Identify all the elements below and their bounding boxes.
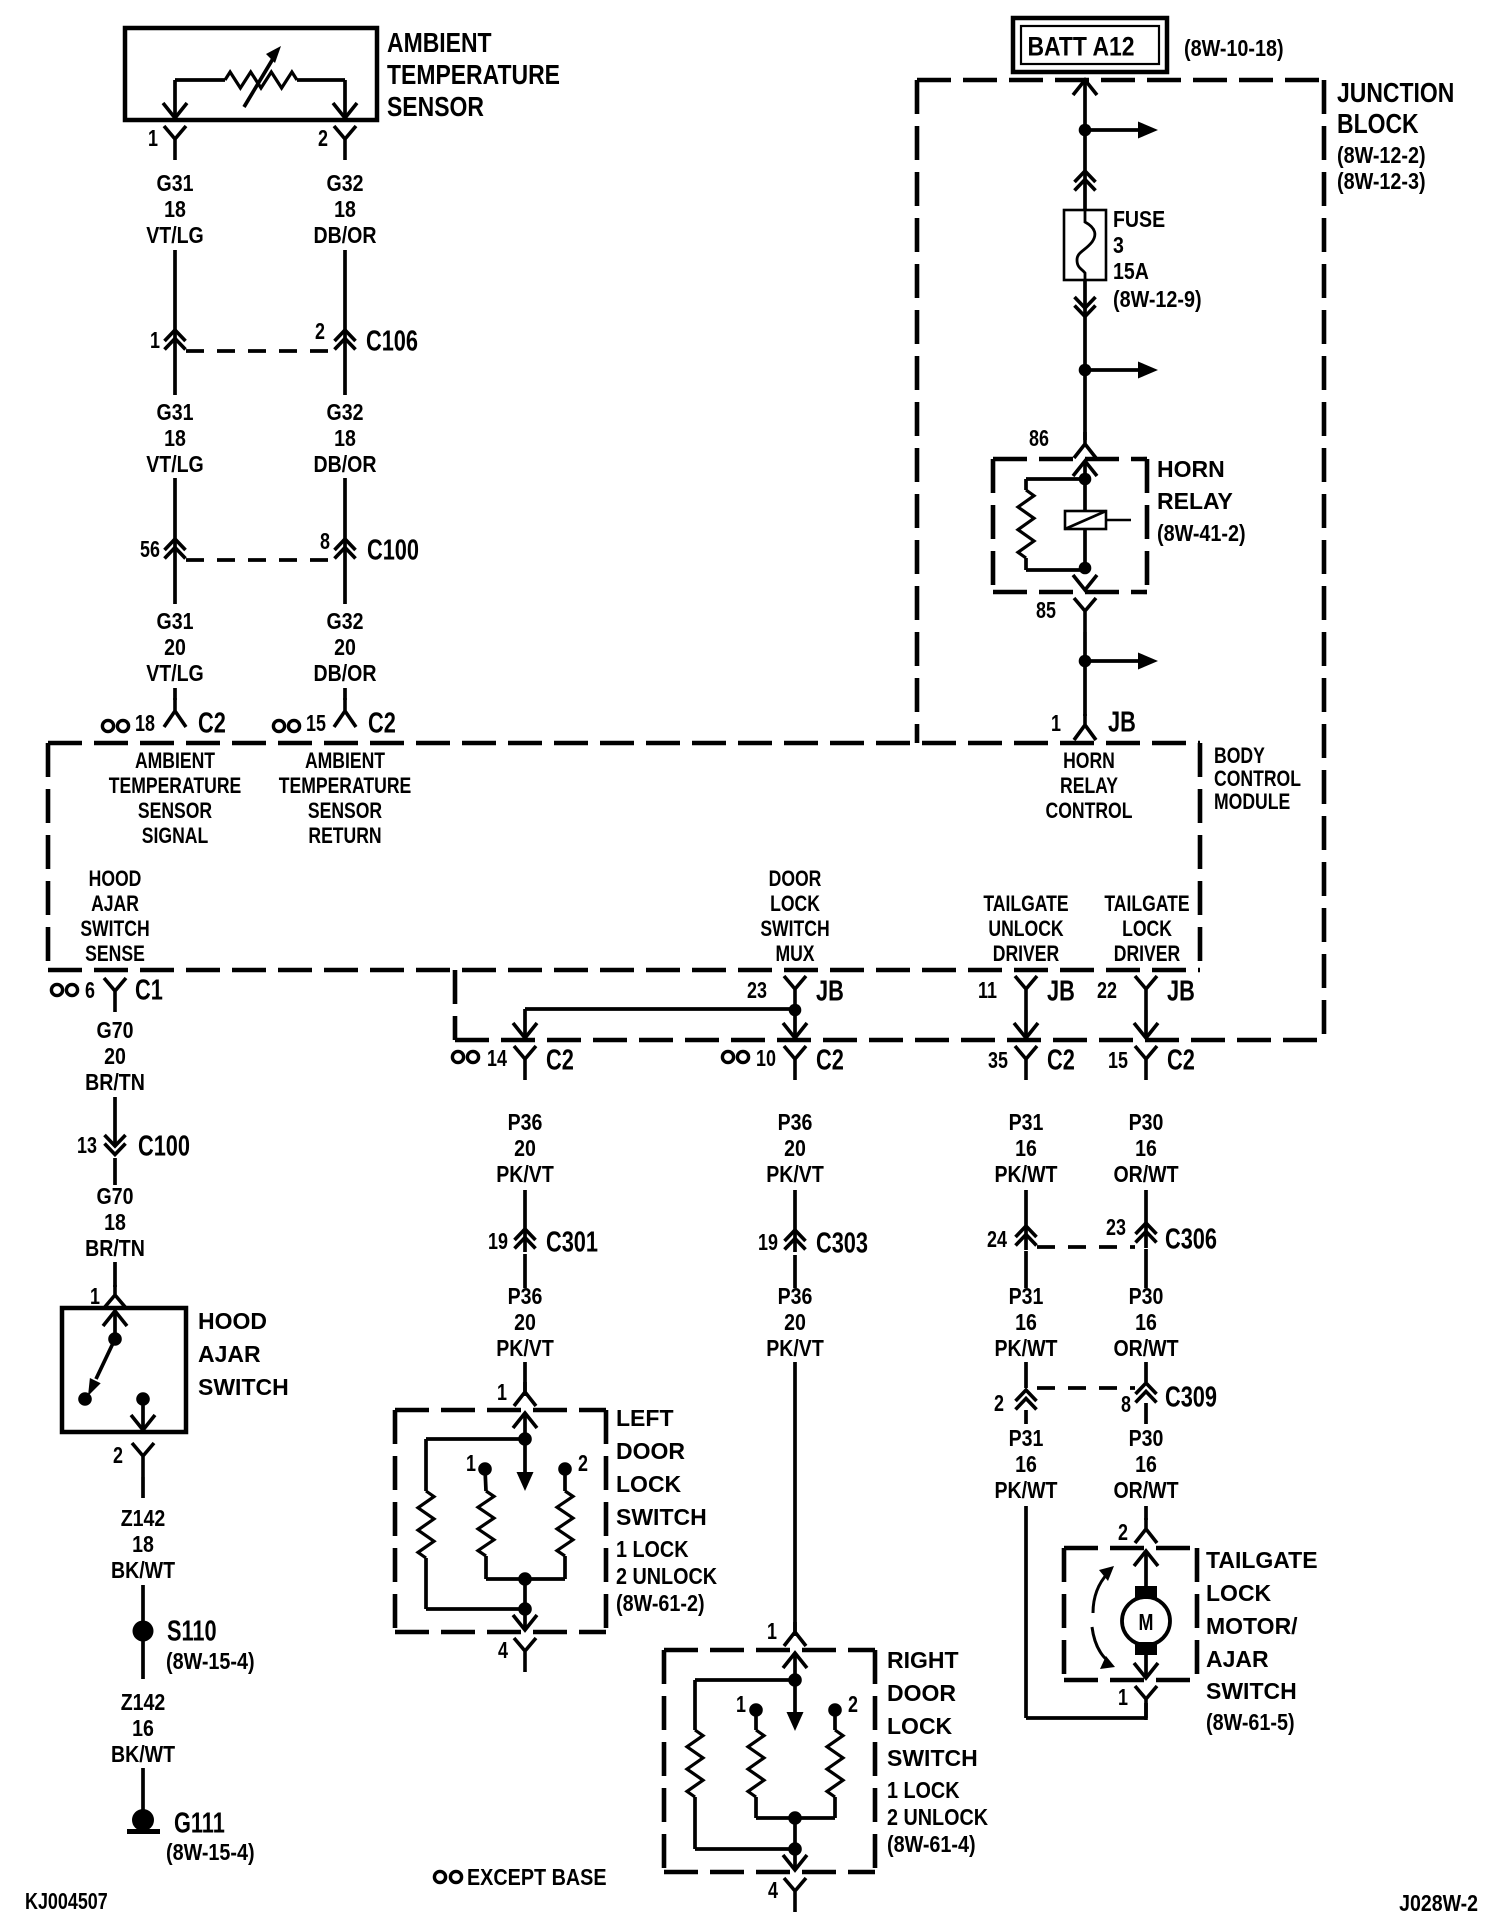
svg-text:G111: G111 bbox=[174, 1807, 225, 1839]
svg-text:MODULE: MODULE bbox=[1214, 790, 1290, 814]
svg-text:18: 18 bbox=[164, 197, 186, 223]
relay suppression resistor bbox=[1018, 479, 1085, 570]
sensor pin 2 arrow into box bottom bbox=[333, 103, 357, 118]
svg-text:(8W-12-2): (8W-12-2) bbox=[1337, 143, 1426, 169]
svg-text:SWITCH: SWITCH bbox=[616, 1504, 707, 1530]
connector C100 dashed link bbox=[186, 558, 334, 562]
motor M1 bbox=[1122, 1597, 1170, 1645]
hood switch movable arm bbox=[88, 1339, 115, 1396]
connector designator JB (horn relay control) bbox=[1108, 706, 1136, 738]
svg-text:VT/LG: VT/LG bbox=[146, 452, 204, 478]
svg-text:(8W-15-4): (8W-15-4) bbox=[166, 1649, 255, 1675]
sensor pin 1 arrow into box bottom bbox=[163, 103, 187, 118]
svg-text:(8W-41-2): (8W-41-2) bbox=[1157, 521, 1246, 547]
connector C303 pin 19 label bbox=[758, 1230, 778, 1256]
right door switch pin 4 connector bbox=[784, 1878, 806, 1912]
motor brush bottom bbox=[1135, 1642, 1157, 1655]
wire label P36 20 PK/VT (left lower) bbox=[496, 1284, 554, 1362]
wire label P31 16 PK/WT (upper) bbox=[995, 1110, 1058, 1188]
svg-text:SWITCH: SWITCH bbox=[198, 1374, 289, 1400]
connector C100 pin 13 label bbox=[77, 1133, 97, 1159]
JB C2 pin 35 label bbox=[988, 1048, 1008, 1074]
hood ajar switch box bbox=[62, 1308, 186, 1432]
svg-text:2: 2 bbox=[318, 126, 328, 152]
svg-text:13: 13 bbox=[77, 1133, 97, 1159]
connector designator C2 (pin 14) bbox=[546, 1044, 574, 1076]
arrow out of motor box bbox=[1134, 1663, 1158, 1678]
except-base marker (10 C2) bbox=[722, 1051, 748, 1062]
right door switch common node bbox=[788, 1673, 802, 1687]
svg-text:3: 3 bbox=[1113, 233, 1124, 259]
wire label G31 20 VT/LG (lower) bbox=[146, 609, 204, 687]
svg-text:HOOD: HOOD bbox=[198, 1308, 267, 1334]
svg-text:18: 18 bbox=[132, 1532, 154, 1558]
motor brush top bbox=[1135, 1586, 1157, 1599]
connector designator C301 bbox=[546, 1226, 598, 1258]
svg-text:TEMPERATURE: TEMPERATURE bbox=[109, 774, 242, 798]
right door switch contact 1 bbox=[749, 1703, 763, 1717]
svg-text:16: 16 bbox=[1015, 1452, 1037, 1478]
svg-text:18: 18 bbox=[334, 426, 356, 452]
wire P31 to motor pin 1 bbox=[1026, 1410, 1146, 1718]
connector C309 dashed link bbox=[1037, 1386, 1135, 1390]
svg-text:C306: C306 bbox=[1165, 1223, 1217, 1255]
except-base marker (6 C1) bbox=[51, 984, 77, 995]
svg-text:1: 1 bbox=[1051, 711, 1061, 737]
right door switch contact 2 bbox=[828, 1703, 842, 1717]
svg-text:20: 20 bbox=[784, 1136, 806, 1162]
svg-text:(8W-61-5): (8W-61-5) bbox=[1206, 1710, 1295, 1736]
svg-text:P31: P31 bbox=[1009, 1110, 1044, 1136]
svg-text:4: 4 bbox=[768, 1878, 778, 1904]
svg-text:PK/VT: PK/VT bbox=[496, 1336, 554, 1362]
BCM C2 pin 15 label bbox=[306, 711, 326, 737]
JB C2 pin 14 label bbox=[487, 1046, 507, 1072]
svg-text:16: 16 bbox=[1135, 1136, 1157, 1162]
connector C100 pin 56 label bbox=[140, 537, 160, 563]
svg-text:PK/WT: PK/WT bbox=[995, 1478, 1058, 1504]
connector designator C100 (pin 13) bbox=[138, 1130, 190, 1162]
connector designator JB (pin 22) bbox=[1167, 975, 1195, 1007]
hood switch pin 1 label bbox=[90, 1284, 100, 1310]
svg-text:PK/WT: PK/WT bbox=[995, 1162, 1058, 1188]
wire G31 to BCM C2 bbox=[173, 566, 177, 700]
svg-text:G31: G31 bbox=[157, 400, 194, 426]
svg-text:20: 20 bbox=[784, 1310, 806, 1336]
left door switch contact 2 label bbox=[578, 1451, 588, 1477]
svg-text:HORN: HORN bbox=[1157, 456, 1225, 482]
svg-text:SENSOR: SENSOR bbox=[138, 799, 212, 823]
label S110 bbox=[167, 1615, 217, 1647]
wire relay to BCM bbox=[1083, 632, 1087, 716]
svg-text:G70: G70 bbox=[97, 1184, 134, 1210]
wire label G70 20 BR/TN bbox=[85, 1018, 145, 1096]
wire P36 to right door lock switch bbox=[793, 1255, 797, 1636]
connector C106 pin 2 chevrons bbox=[335, 330, 356, 350]
svg-text:AMBIENT: AMBIENT bbox=[305, 749, 385, 773]
connector C106 pin 2 label bbox=[315, 319, 325, 345]
svg-text:SENSOR: SENSOR bbox=[308, 799, 382, 823]
svg-text:C2: C2 bbox=[368, 707, 396, 739]
svg-text:4: 4 bbox=[498, 1638, 508, 1664]
reference (8W-15-4) S110 bbox=[166, 1649, 255, 1675]
except-base marker (18 C2) bbox=[102, 720, 128, 731]
mux junction node bbox=[789, 1004, 802, 1017]
svg-text:PK/VT: PK/VT bbox=[766, 1336, 824, 1362]
svg-text:C2: C2 bbox=[1047, 1044, 1075, 1076]
svg-text:LOCK: LOCK bbox=[616, 1471, 682, 1497]
svg-text:1 LOCK: 1 LOCK bbox=[616, 1537, 689, 1563]
wire G70 to hood ajar switch bbox=[113, 1158, 117, 1287]
svg-text:OR/WT: OR/WT bbox=[1113, 1478, 1178, 1504]
svg-text:MOTOR/: MOTOR/ bbox=[1206, 1613, 1298, 1639]
svg-text:1: 1 bbox=[466, 1451, 476, 1477]
right door switch contact 2 label bbox=[848, 1692, 858, 1718]
wire mux down bbox=[793, 1010, 797, 1036]
node label HORN RELAY CONTROL bbox=[1046, 749, 1133, 823]
left door switch contact 1 label bbox=[466, 1451, 476, 1477]
svg-text:11: 11 bbox=[978, 978, 997, 1004]
BCM C1 pin 6 label bbox=[85, 978, 95, 1004]
svg-text:86: 86 bbox=[1029, 426, 1049, 452]
svg-text:16: 16 bbox=[1135, 1310, 1157, 1336]
relay pin 85 connector bbox=[1074, 598, 1096, 632]
svg-text:AJAR: AJAR bbox=[198, 1341, 261, 1367]
svg-text:JB: JB bbox=[1167, 975, 1195, 1007]
except-base marker (15 C2) bbox=[273, 720, 299, 731]
svg-text:SWITCH: SWITCH bbox=[887, 1745, 978, 1771]
right door switch range resistor bbox=[687, 1680, 795, 1849]
svg-text:TAILGATE: TAILGATE bbox=[983, 892, 1068, 916]
left door switch lower node bbox=[518, 1602, 532, 1628]
svg-text:RIGHT: RIGHT bbox=[887, 1647, 959, 1673]
arrow out of left door switch bbox=[513, 1615, 537, 1630]
hood switch contact 1 bbox=[78, 1392, 92, 1406]
left door switch pin 4 label bbox=[498, 1638, 508, 1664]
relay coil symbol bbox=[1065, 511, 1131, 529]
right door switch wiper arrow bbox=[787, 1680, 804, 1731]
svg-text:SIGNAL: SIGNAL bbox=[142, 824, 208, 848]
right door switch lower node bbox=[788, 1842, 802, 1868]
connector C303 pin 19 chevrons bbox=[785, 1230, 806, 1250]
svg-text:PK/WT: PK/WT bbox=[995, 1336, 1058, 1362]
svg-text:VT/LG: VT/LG bbox=[146, 661, 204, 687]
connector C100 pin 8 chevrons bbox=[335, 539, 356, 559]
svg-text:2 UNLOCK: 2 UNLOCK bbox=[616, 1564, 718, 1590]
wire label G31 18 VT/LG (middle) bbox=[146, 400, 204, 478]
body control module dashed box bbox=[48, 743, 1200, 970]
svg-text:16: 16 bbox=[1135, 1452, 1157, 1478]
svg-text:TEMPERATURE: TEMPERATURE bbox=[279, 774, 412, 798]
label HORN RELAY (8W-41-2) bbox=[1157, 456, 1246, 546]
BCM pin 1 JB connector bbox=[1074, 714, 1096, 740]
svg-text:20: 20 bbox=[164, 635, 186, 661]
svg-text:G32: G32 bbox=[327, 609, 364, 635]
svg-text:G31: G31 bbox=[157, 609, 194, 635]
svg-text:14: 14 bbox=[487, 1046, 507, 1072]
svg-text:SWITCH: SWITCH bbox=[760, 917, 829, 941]
wire P36 to C303 bbox=[793, 1190, 797, 1252]
motor pin 2 connector bbox=[1135, 1518, 1157, 1543]
wire Z142 to ground bbox=[141, 1641, 145, 1810]
JB C2 pin 10 label bbox=[756, 1046, 776, 1072]
connector C306 pin 24 chevrons bbox=[1016, 1226, 1037, 1246]
svg-text:DRIVER: DRIVER bbox=[1114, 942, 1180, 966]
sheet code J028W-2 bbox=[1399, 1891, 1478, 1917]
label FUSE 3 15A (8W-12-9) bbox=[1113, 207, 1202, 313]
thermistor adjustment arrow bbox=[244, 46, 281, 107]
left door switch common node bbox=[518, 1432, 532, 1446]
svg-text:JB: JB bbox=[816, 975, 844, 1007]
relay coil wire bbox=[1083, 461, 1087, 568]
left door lock switch dashed box bbox=[395, 1410, 606, 1632]
relay node top bbox=[1079, 473, 1092, 486]
svg-text:1: 1 bbox=[150, 328, 160, 354]
wire label G31 18 VT/LG (upper) bbox=[146, 171, 204, 249]
svg-text:6: 6 bbox=[85, 978, 95, 1004]
svg-text:DB/OR: DB/OR bbox=[314, 661, 377, 687]
svg-text:C2: C2 bbox=[1167, 1044, 1195, 1076]
svg-text:G32: G32 bbox=[327, 400, 364, 426]
svg-text:18: 18 bbox=[104, 1210, 126, 1236]
svg-text:C2: C2 bbox=[198, 707, 226, 739]
svg-text:DOOR: DOOR bbox=[616, 1438, 685, 1464]
svg-text:SENSE: SENSE bbox=[85, 942, 145, 966]
svg-text:2 UNLOCK: 2 UNLOCK bbox=[887, 1805, 989, 1831]
svg-text:C100: C100 bbox=[367, 534, 419, 566]
except-base marker (14 C2) bbox=[452, 1051, 478, 1062]
connector C301 pin 19 label bbox=[488, 1229, 508, 1255]
arrow into right door switch bbox=[783, 1653, 807, 1680]
connector designator C100 bbox=[367, 534, 419, 566]
relay pin 86 connector bbox=[1074, 432, 1096, 458]
svg-text:19: 19 bbox=[488, 1229, 508, 1255]
wire P30 to C306 bbox=[1144, 1190, 1148, 1248]
label RIGHT DOOR LOCK SWITCH bbox=[887, 1647, 989, 1857]
svg-text:LOCK: LOCK bbox=[1122, 917, 1172, 941]
wire label G32 18 DB/OR (upper) bbox=[314, 171, 377, 249]
connector C306 pin 23 label bbox=[1106, 1215, 1126, 1241]
tailgate lock motor dashed box bbox=[1064, 1548, 1197, 1680]
junction block connector chevrons (above fuse) bbox=[1075, 171, 1096, 191]
horn relay dashed box bbox=[993, 459, 1147, 592]
JB C2 pin 15b connector bbox=[1135, 1046, 1157, 1080]
svg-text:LOCK: LOCK bbox=[1206, 1580, 1272, 1606]
left door switch contact 1 bbox=[478, 1462, 492, 1476]
svg-text:19: 19 bbox=[758, 1230, 778, 1256]
svg-text:15A: 15A bbox=[1113, 259, 1149, 285]
svg-text:P30: P30 bbox=[1129, 1110, 1164, 1136]
wire branch to left door lock switch bbox=[525, 1009, 795, 1036]
arrow out of hood switch bbox=[131, 1415, 155, 1430]
connector C106 dashed link bbox=[186, 349, 334, 353]
sheet code KJ004507 bbox=[25, 1889, 108, 1915]
svg-text:Z142: Z142 bbox=[121, 1690, 166, 1716]
wire fuse to horn relay bbox=[1083, 280, 1087, 440]
svg-text:18: 18 bbox=[135, 711, 155, 737]
pin 1 connector bbox=[164, 126, 186, 160]
motor rotation arrows bbox=[1092, 1566, 1115, 1669]
BCM JB pin 22 label bbox=[1097, 978, 1117, 1004]
wire label G32 18 DB/OR (middle) bbox=[314, 400, 377, 478]
svg-text:G31: G31 bbox=[157, 171, 194, 197]
wire G31 to C106 bbox=[173, 250, 177, 356]
arrow into left door switch bbox=[513, 1413, 537, 1439]
svg-text:23: 23 bbox=[747, 978, 767, 1004]
svg-text:C2: C2 bbox=[816, 1044, 844, 1076]
svg-text:C2: C2 bbox=[546, 1044, 574, 1076]
left door switch range resistor bbox=[418, 1439, 525, 1609]
connector C306 pin 24 label bbox=[987, 1227, 1007, 1253]
JB C2 pin 35 connector bbox=[1015, 1046, 1037, 1080]
connector C106 pin 1 label bbox=[150, 328, 160, 354]
svg-text:G70: G70 bbox=[97, 1018, 134, 1044]
svg-text:J028W-2: J028W-2 bbox=[1399, 1891, 1478, 1917]
junction block dashed box bbox=[917, 80, 1324, 1040]
svg-text:RELAY: RELAY bbox=[1157, 488, 1233, 514]
svg-text:15: 15 bbox=[306, 711, 326, 737]
svg-text:C1: C1 bbox=[135, 974, 163, 1006]
connector C100 pin 56 chevrons bbox=[165, 539, 186, 559]
svg-text:JB: JB bbox=[1108, 706, 1136, 738]
arrow into motor box bbox=[1134, 1551, 1158, 1588]
connector C306 pin 23 chevrons bbox=[1136, 1223, 1157, 1243]
BCM JB pin 22 connector bbox=[1135, 976, 1157, 1010]
connector C106 pin 1 chevrons bbox=[165, 330, 186, 350]
connector designator C1 bbox=[135, 974, 163, 1006]
left door switch pin 4 connector bbox=[514, 1638, 536, 1672]
svg-text:C301: C301 bbox=[546, 1226, 598, 1258]
svg-text:DOOR: DOOR bbox=[769, 867, 822, 891]
junction block connector chevrons (below fuse) bbox=[1075, 297, 1096, 317]
svg-text:JB: JB bbox=[1047, 975, 1075, 1007]
wire G32 to C100 bbox=[343, 356, 347, 566]
BCM JB pin 23 label bbox=[747, 978, 767, 1004]
connector C100 pin 13 chevrons bbox=[105, 1135, 126, 1155]
svg-text:HOOD: HOOD bbox=[89, 867, 142, 891]
wire label P36 20 PK/VT (right upper) bbox=[766, 1110, 824, 1188]
right door switch unlock resistor bbox=[795, 1710, 843, 1818]
wire label G32 20 DB/OR (lower) bbox=[314, 609, 377, 687]
svg-text:DRIVER: DRIVER bbox=[993, 942, 1059, 966]
svg-text:DOOR: DOOR bbox=[887, 1680, 956, 1706]
svg-text:2: 2 bbox=[994, 1391, 1004, 1417]
wire label P30 16 OR/WT (middle) bbox=[1113, 1284, 1178, 1362]
svg-text:LOCK: LOCK bbox=[770, 892, 820, 916]
connector designator JB (pin 23) bbox=[816, 975, 844, 1007]
connector designator C303 bbox=[816, 1227, 868, 1259]
svg-text:LEFT: LEFT bbox=[616, 1405, 674, 1431]
svg-text:C303: C303 bbox=[816, 1227, 868, 1259]
label BODY CONTROL MODULE bbox=[1214, 744, 1301, 814]
svg-text:RETURN: RETURN bbox=[308, 824, 381, 848]
svg-text:CONTROL: CONTROL bbox=[1214, 767, 1301, 791]
wire G70 to C100 bbox=[113, 1097, 117, 1146]
svg-text:20: 20 bbox=[334, 635, 356, 661]
connector C100 pin 8 label bbox=[320, 529, 330, 555]
svg-text:OR/WT: OR/WT bbox=[1113, 1336, 1178, 1362]
wire P31 to C309 bbox=[1024, 1251, 1028, 1388]
wire P30 to C309 bbox=[1144, 1249, 1148, 1382]
wire label Z142 18 BK/WT bbox=[111, 1506, 175, 1584]
svg-text:20: 20 bbox=[514, 1310, 536, 1336]
left door switch contact 2 bbox=[558, 1462, 572, 1476]
svg-text:8: 8 bbox=[1121, 1392, 1131, 1418]
node label AMBIENT TEMPERATURE SENSOR SIGNAL bbox=[109, 749, 242, 848]
left door switch pin 1 label bbox=[497, 1380, 507, 1406]
svg-text:18: 18 bbox=[334, 197, 356, 223]
arrow into relay top bbox=[1073, 461, 1097, 476]
arrow into BATT A12 bbox=[1073, 80, 1097, 95]
JB C2 pin 15b label bbox=[1108, 1048, 1128, 1074]
svg-text:1: 1 bbox=[497, 1380, 507, 1406]
svg-text:18: 18 bbox=[164, 426, 186, 452]
connector C306 dashed link bbox=[1037, 1245, 1135, 1249]
svg-text:(8W-61-4): (8W-61-4) bbox=[887, 1832, 976, 1858]
svg-text:24: 24 bbox=[987, 1227, 1007, 1253]
pin 1 label bbox=[148, 126, 158, 152]
svg-text:DB/OR: DB/OR bbox=[314, 452, 377, 478]
hood switch pin 2 label bbox=[113, 1443, 123, 1469]
svg-text:2: 2 bbox=[1118, 1520, 1128, 1546]
svg-text:C309: C309 bbox=[1165, 1381, 1217, 1413]
left door switch lock resistor bbox=[478, 1469, 525, 1579]
label BATT A12 bbox=[1027, 32, 1134, 62]
right door switch pin 1 connector bbox=[784, 1622, 806, 1646]
svg-text:HORN: HORN bbox=[1063, 749, 1115, 773]
svg-text:BK/WT: BK/WT bbox=[111, 1558, 175, 1584]
svg-text:OR/WT: OR/WT bbox=[1113, 1162, 1178, 1188]
label TAILGATE LOCK MOTOR/AJAR SWITCH bbox=[1206, 1547, 1318, 1735]
svg-text:KJ004507: KJ004507 bbox=[25, 1889, 108, 1915]
connector designator C309 bbox=[1165, 1381, 1217, 1413]
svg-text:FUSE: FUSE bbox=[1113, 207, 1165, 233]
wire Z142 to splice bbox=[141, 1477, 145, 1622]
svg-text:BODY: BODY bbox=[1214, 744, 1265, 768]
svg-text:VT/LG: VT/LG bbox=[146, 223, 204, 249]
wire G31 to C100 bbox=[173, 356, 177, 566]
svg-text:BATT A12: BATT A12 bbox=[1027, 32, 1134, 62]
svg-text:35: 35 bbox=[988, 1048, 1008, 1074]
svg-text:16: 16 bbox=[1015, 1310, 1037, 1336]
svg-text:EXCEPT BASE: EXCEPT BASE bbox=[467, 1865, 607, 1891]
relay pin 86 label bbox=[1029, 426, 1049, 452]
hood switch pin 1 connector bbox=[104, 1285, 126, 1308]
wire label P36 20 PK/VT (right lower) bbox=[766, 1284, 824, 1362]
node label HOOD AJAR SWITCH SENSE bbox=[80, 867, 149, 966]
svg-text:AMBIENT: AMBIENT bbox=[135, 749, 215, 773]
arrow at JB exit (left branch) bbox=[513, 1023, 537, 1038]
wire tailgate unlock in JB bbox=[1024, 1010, 1028, 1036]
arrow at JB exit (unlock) bbox=[1014, 1023, 1038, 1038]
connector designator C2 (pin 15b) bbox=[1167, 1044, 1195, 1076]
relay pin 85 label bbox=[1036, 598, 1056, 624]
svg-text:2: 2 bbox=[315, 319, 325, 345]
wire label P30 16 OR/WT (lower) bbox=[1113, 1426, 1178, 1504]
BCM C2 pin 18 connector bbox=[164, 698, 186, 727]
node label DOOR LOCK SWITCH MUX bbox=[760, 867, 829, 966]
label HOOD AJAR SWITCH bbox=[198, 1308, 289, 1400]
arrow out of relay bottom bbox=[1073, 575, 1097, 590]
svg-text:Z142: Z142 bbox=[121, 1506, 166, 1532]
svg-text:20: 20 bbox=[104, 1044, 126, 1070]
svg-text:(8W-12-9): (8W-12-9) bbox=[1113, 287, 1202, 313]
svg-text:(8W-15-4): (8W-15-4) bbox=[166, 1840, 255, 1866]
connector C301 pin 19 chevrons bbox=[515, 1229, 536, 1249]
BCM C1 pin 6 connector bbox=[104, 978, 126, 1012]
wire BATT to fuse bbox=[1083, 80, 1087, 210]
svg-text:PK/VT: PK/VT bbox=[766, 1162, 824, 1188]
